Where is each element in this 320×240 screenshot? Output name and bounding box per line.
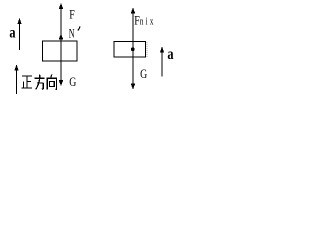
svg-text:nix: nix — [140, 15, 156, 27]
svg-text:G: G — [140, 68, 147, 82]
svg-text:F: F — [134, 14, 139, 28]
svg-text:a: a — [167, 46, 173, 64]
svg-text:N: N — [69, 26, 75, 40]
svg-text:G: G — [69, 76, 76, 90]
svg-text:a: a — [9, 24, 15, 42]
svg-text:F: F — [69, 8, 74, 22]
